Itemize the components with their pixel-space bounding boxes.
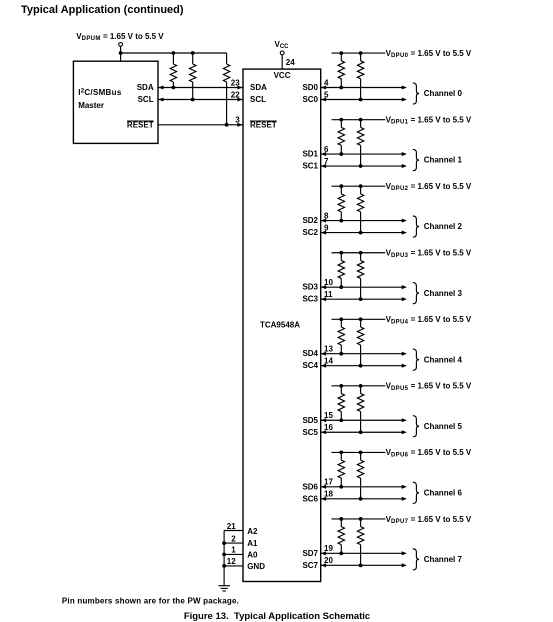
power net label VDPU5 xyxy=(386,382,472,392)
pin number 12 xyxy=(227,557,236,566)
chip pin SD5 xyxy=(302,416,318,425)
ground symbol xyxy=(218,586,230,591)
svg-text:13: 13 xyxy=(324,345,333,354)
chip pin A1 xyxy=(247,539,258,548)
chip pin SDA xyxy=(250,83,267,92)
chip pin VCC xyxy=(274,71,291,80)
node junction VDPUM rail xyxy=(119,51,123,55)
svg-text:SD6: SD6 xyxy=(302,482,318,491)
svg-text:SC7: SC7 xyxy=(302,561,318,570)
svg-text:23: 23 xyxy=(231,79,240,88)
brace channel 0 xyxy=(413,83,419,104)
svg-text:6: 6 xyxy=(324,145,329,154)
node label Channel 6 xyxy=(424,488,463,497)
node junction rail/SD0 pull-up top xyxy=(339,51,343,55)
node junction SC4 line / pull-up xyxy=(359,364,363,368)
chip pin SD0 xyxy=(302,83,318,92)
wire SC4 channel clock line (bidirectional) xyxy=(321,364,407,368)
note: pin numbers package xyxy=(62,597,239,606)
resistor pull-up on SD3 xyxy=(338,253,344,287)
node junction rail/SD6 pull-up top xyxy=(339,451,343,455)
svg-text:SD2: SD2 xyxy=(302,216,318,225)
svg-text:SC4: SC4 xyxy=(302,361,318,370)
svg-text:Master: Master xyxy=(78,101,104,110)
power terminal VDPUM circle xyxy=(119,43,123,47)
resistor pull-up on SC5 xyxy=(357,386,363,432)
pin number 1 xyxy=(231,546,236,555)
svg-text:VDPU3 = 1.65 V to 5.5 V: VDPU3 = 1.65 V to 5.5 V xyxy=(386,249,472,259)
resistor pull-up on SD1 xyxy=(338,120,344,154)
svg-text:18: 18 xyxy=(324,490,333,499)
svg-text:GND: GND xyxy=(247,562,265,571)
node junction rail/SC4 pull-up top xyxy=(359,317,363,321)
power terminal VCC circle xyxy=(280,51,284,55)
svg-text:SC6: SC6 xyxy=(302,494,318,503)
node junction SD1 line / pull-up xyxy=(339,152,343,156)
svg-text:12: 12 xyxy=(227,557,236,566)
svg-text:Channel 0: Channel 0 xyxy=(424,89,463,98)
svg-text:SDA: SDA xyxy=(250,83,267,92)
wire A0 pin stub xyxy=(224,553,243,555)
pin number 15 xyxy=(324,411,333,420)
pin number 21 xyxy=(227,522,236,531)
pin number 13 xyxy=(324,345,333,354)
svg-text:Typical Application (continued: Typical Application (continued) xyxy=(21,4,184,16)
svg-text:2: 2 xyxy=(231,534,236,543)
node junction SC1 line / pull-up xyxy=(359,164,363,168)
svg-text:SD1: SD1 xyxy=(302,150,318,159)
node junction SD5 line / pull-up xyxy=(339,418,343,422)
chip pin A2 xyxy=(247,527,258,536)
pin number 9 xyxy=(324,223,329,232)
svg-text:4: 4 xyxy=(324,78,329,87)
power net label VDPU1 xyxy=(386,115,472,125)
svg-text:SC0: SC0 xyxy=(302,95,318,104)
node junction SC2 line / pull-up xyxy=(359,231,363,235)
node junction SC5 line / pull-up xyxy=(359,430,363,434)
svg-text:1: 1 xyxy=(231,546,236,555)
power net label VDPU4 xyxy=(386,315,472,325)
wire VCC terminal to pin 24 xyxy=(281,55,283,69)
pin number 19 xyxy=(324,544,333,553)
resistor pull-up on SC7 xyxy=(357,519,363,565)
node label Channel 2 xyxy=(424,222,463,231)
chip pin SD6 xyxy=(302,482,318,491)
wire A2 pin stub xyxy=(224,530,243,532)
svg-text:22: 22 xyxy=(231,91,240,100)
svg-text:VDPU7 = 1.65 V to 5.5 V: VDPU7 = 1.65 V to 5.5 V xyxy=(386,515,472,525)
brace channel 6 xyxy=(413,482,419,503)
chip pin SD4 xyxy=(302,349,318,358)
pin number 5 xyxy=(324,90,329,99)
svg-text:11: 11 xyxy=(324,290,333,299)
node junction A1/bus xyxy=(222,541,226,545)
chip pin SD2 xyxy=(302,216,318,225)
pin number 8 xyxy=(324,211,329,220)
wire SC1 channel clock line (bidirectional) xyxy=(321,164,407,168)
svg-text:21: 21 xyxy=(227,522,236,531)
svg-text:SC1: SC1 xyxy=(302,162,318,171)
chip pin GND xyxy=(247,562,265,571)
pin number 10 xyxy=(324,278,333,287)
svg-text:9: 9 xyxy=(324,223,329,232)
wire SD4 channel data line (bidirectional) xyxy=(321,352,407,356)
wire SC6 channel clock line (bidirectional) xyxy=(321,497,407,501)
pin number 16 xyxy=(324,423,333,432)
resistor pull-up on SD6 xyxy=(338,452,344,486)
svg-text:SCL: SCL xyxy=(138,95,154,104)
wire pull-up rail VDPU1 xyxy=(332,119,386,121)
chip pin RESET (active low) xyxy=(250,120,277,129)
wire RESET master to chip xyxy=(158,123,243,127)
power net label VDPU0 xyxy=(386,49,472,59)
svg-text:16: 16 xyxy=(324,423,333,432)
pin number 2 xyxy=(231,534,236,543)
pin number 24 xyxy=(286,58,295,67)
svg-text:Pin numbers shown are for the: Pin numbers shown are for the PW package… xyxy=(62,597,239,606)
power terminal VCC label xyxy=(275,40,290,50)
node junction rail/SD5 pull-up top xyxy=(339,384,343,388)
node junction rail/SD3 pull-up top xyxy=(339,251,343,255)
wire SC3 channel clock line (bidirectional) xyxy=(321,297,407,301)
node junction SD7 line / pull-up xyxy=(339,551,343,555)
svg-text:VDPU1 = 1.65 V to 5.5 V: VDPU1 = 1.65 V to 5.5 V xyxy=(386,115,472,125)
node label Channel 4 xyxy=(424,355,463,364)
node junction SC6 line / pull-up xyxy=(359,497,363,501)
svg-text:RESET: RESET xyxy=(250,120,277,129)
wire pull-up rail VDPU0 xyxy=(332,52,386,54)
wire SD3 channel data line (bidirectional) xyxy=(321,285,407,289)
chip pin SC1 xyxy=(302,162,318,171)
node junction SD4 line / pull-up xyxy=(339,352,343,356)
brace channel 7 xyxy=(413,549,419,570)
svg-text:VDPU6 = 1.65 V to 5.5 V: VDPU6 = 1.65 V to 5.5 V xyxy=(386,448,472,458)
node junction rail/SC6 pull-up top xyxy=(359,451,363,455)
resistor pull-up on SC4 xyxy=(357,319,363,365)
svg-text:24: 24 xyxy=(286,58,295,67)
svg-text:VDPU0 = 1.65 V to 5.5 V: VDPU0 = 1.65 V to 5.5 V xyxy=(386,49,472,59)
wire pull-up rail VDPU5 xyxy=(332,385,386,387)
node junction rail/SD2 pull-up top xyxy=(339,184,343,188)
chip pin SC7 xyxy=(302,561,318,570)
node junction A0/bus xyxy=(222,553,226,557)
resistor pull-up on SC6 xyxy=(357,452,363,498)
power net label VDPU6 xyxy=(386,448,472,458)
svg-text:SC3: SC3 xyxy=(302,295,318,304)
svg-text:TCA9548A: TCA9548A xyxy=(260,320,300,329)
svg-text:15: 15 xyxy=(324,411,333,420)
wire VDPUM terminal to pull-up rail and master box VCC xyxy=(120,46,122,61)
node junction SD6 line / pull-up xyxy=(339,485,343,489)
svg-text:7: 7 xyxy=(324,157,329,166)
svg-text:SC5: SC5 xyxy=(302,428,318,437)
chip pin SC5 xyxy=(302,428,318,437)
node junction SDA line / pull-up xyxy=(172,86,176,90)
chip pin SD7 xyxy=(302,549,318,558)
svg-text:VCC: VCC xyxy=(275,40,290,50)
title: Typical Application (continued) xyxy=(21,4,184,16)
node junction SCL line / pull-up xyxy=(191,98,195,102)
power net label VDPU2 xyxy=(386,182,472,192)
svg-text:5: 5 xyxy=(324,90,329,99)
svg-text:10: 10 xyxy=(324,278,333,287)
svg-text:VDPU2 = 1.65 V to 5.5 V: VDPU2 = 1.65 V to 5.5 V xyxy=(386,182,472,192)
node junction SC0 line / pull-up xyxy=(359,98,363,102)
brace channel 1 xyxy=(413,149,419,170)
pin number 17 xyxy=(324,478,333,487)
wire SC2 channel clock line (bidirectional) xyxy=(321,231,407,235)
node junction rail/SD1 pull-up top xyxy=(339,118,343,122)
node label Channel 3 xyxy=(424,289,463,298)
wire pull-up rail VDPU3 xyxy=(332,252,386,254)
chip pin SC4 xyxy=(302,361,318,370)
resistor pull-up on SC1 xyxy=(357,120,363,166)
svg-text:19: 19 xyxy=(324,544,333,553)
chip pin SD1 xyxy=(302,150,318,159)
node junction SD3 line / pull-up xyxy=(339,285,343,289)
node label Channel 1 xyxy=(424,156,463,165)
node label Channel 5 xyxy=(424,422,463,431)
svg-text:20: 20 xyxy=(324,556,333,565)
power net label VDPU7 xyxy=(386,515,472,525)
svg-text:Channel 3: Channel 3 xyxy=(424,289,463,298)
node junction rail/SC5 pull-up top xyxy=(359,384,363,388)
svg-text:14: 14 xyxy=(324,357,333,366)
resistor pull-up on SD7 xyxy=(338,519,344,553)
op chip TCA9548A block xyxy=(243,69,321,581)
node junction rail/SC1 pull-up top xyxy=(359,118,363,122)
power net label VDPU3 xyxy=(386,249,472,259)
svg-text:Channel 7: Channel 7 xyxy=(424,555,463,564)
svg-text:I2C/SMBus: I2C/SMBus xyxy=(78,88,122,97)
svg-text:A1: A1 xyxy=(247,539,258,548)
resistor pull-up on SD5 xyxy=(338,386,344,420)
svg-text:SCL: SCL xyxy=(250,95,266,104)
wire SD5 channel data line (bidirectional) xyxy=(321,418,407,422)
chip pin SC3 xyxy=(302,295,318,304)
svg-text:SD7: SD7 xyxy=(302,549,318,558)
pin number 11 xyxy=(324,290,333,299)
master pin SDA xyxy=(137,83,154,92)
wire SD0 channel data line (bidirectional) xyxy=(321,85,407,89)
wire SC7 channel clock line (bidirectional) xyxy=(321,563,407,567)
node label Channel 0 xyxy=(424,89,463,98)
pin number 6 xyxy=(324,145,329,154)
brace channel 5 xyxy=(413,416,419,437)
node junction rail/SC7 pull-up top xyxy=(359,517,363,521)
svg-text:SD5: SD5 xyxy=(302,416,318,425)
node junction RESET line / pull-up xyxy=(225,123,229,127)
wire SC0 channel clock line (bidirectional) xyxy=(321,97,407,101)
pin number 20 xyxy=(324,556,333,565)
node junction resistor top on rail (SCL pull-up) xyxy=(191,51,195,55)
pin number 22 xyxy=(231,91,240,100)
svg-text:Channel 1: Channel 1 xyxy=(424,156,463,165)
chip pin SC2 xyxy=(302,228,318,237)
pin number 14 xyxy=(324,357,333,366)
svg-text:A0: A0 xyxy=(247,550,258,559)
wire A1 pin stub xyxy=(224,542,243,544)
svg-text:Channel 5: Channel 5 xyxy=(424,422,463,431)
brace channel 3 xyxy=(413,283,419,304)
I2C/SMBus Master block xyxy=(73,61,158,143)
svg-text:Channel 4: Channel 4 xyxy=(424,355,463,364)
wire SD1 channel data line (bidirectional) xyxy=(321,152,407,156)
node junction SC7 line / pull-up xyxy=(359,563,363,567)
svg-text:SD4: SD4 xyxy=(302,349,318,358)
node junction SD0 line / pull-up xyxy=(339,86,343,90)
svg-text:SDA: SDA xyxy=(137,83,154,92)
wire SD7 channel data line (bidirectional) xyxy=(321,551,407,555)
svg-text:Channel 2: Channel 2 xyxy=(424,222,463,231)
svg-text:3: 3 xyxy=(235,116,240,125)
master pin SCL xyxy=(138,95,154,104)
wire GND pin stub xyxy=(224,565,243,567)
svg-text:Channel 6: Channel 6 xyxy=(424,488,463,497)
node junction SC3 line / pull-up xyxy=(359,297,363,301)
node junction rail/SC3 pull-up top xyxy=(359,251,363,255)
brace channel 4 xyxy=(413,349,419,370)
wire SDA bus (bidirectional) master to chip xyxy=(158,85,243,89)
resistor pull-up on SCL xyxy=(190,53,196,100)
resistor pull-up on SC3 xyxy=(357,253,363,299)
resistor pull-up on RESET xyxy=(223,53,229,125)
svg-text:VDPU5 = 1.65 V to 5.5 V: VDPU5 = 1.65 V to 5.5 V xyxy=(386,382,472,392)
wire pull-up rail for SDA/SCL/RESET xyxy=(121,52,227,54)
wire SCL bus (bidirectional) master to chip xyxy=(158,97,243,101)
power terminal VDPUM supply label xyxy=(76,32,164,42)
wire pull-up rail VDPU4 xyxy=(332,318,386,320)
chip pin SCL xyxy=(250,95,266,104)
chip pin SD3 xyxy=(302,283,318,292)
resistor pull-up on SC2 xyxy=(357,186,363,232)
node junction rail/SD4 pull-up top xyxy=(339,317,343,321)
svg-text:8: 8 xyxy=(324,211,329,220)
wire pull-up rail VDPU7 xyxy=(332,518,386,520)
master pin RESET (active low) xyxy=(127,120,154,129)
resistor pull-up on SD0 xyxy=(338,53,344,87)
chip pin A0 xyxy=(247,550,258,559)
brace channel 2 xyxy=(413,216,419,237)
wire address/ground bus vertical xyxy=(223,531,225,586)
node junction rail/SD7 pull-up top xyxy=(339,517,343,521)
node junction SD2 line / pull-up xyxy=(339,219,343,223)
pin number 18 xyxy=(324,490,333,499)
svg-text:SC2: SC2 xyxy=(302,228,318,237)
chip pin SC6 xyxy=(302,494,318,503)
resistor pull-up on SDA xyxy=(170,53,176,88)
chip pin SC0 xyxy=(302,95,318,104)
svg-text:VDPUM = 1.65 V to 5.5 V: VDPUM = 1.65 V to 5.5 V xyxy=(76,32,164,42)
svg-text:A2: A2 xyxy=(247,527,258,536)
svg-text:SD0: SD0 xyxy=(302,83,318,92)
svg-text:VDPU4 = 1.65 V to 5.5 V: VDPU4 = 1.65 V to 5.5 V xyxy=(386,315,472,325)
svg-text:Figure 13. Typical Applicatio: Figure 13. Typical Application Schematic xyxy=(184,611,370,622)
pin number 7 xyxy=(324,157,329,166)
wire SD2 channel data line (bidirectional) xyxy=(321,219,407,223)
pin number 3 xyxy=(235,116,240,125)
resistor pull-up on SC0 xyxy=(357,53,363,99)
wire SC5 channel clock line (bidirectional) xyxy=(321,430,407,434)
resistor pull-up on SD4 xyxy=(338,319,344,353)
svg-text:VCC: VCC xyxy=(274,71,291,80)
node junction GND/bus xyxy=(222,564,226,568)
caption Figure 13 xyxy=(184,611,370,622)
node label Channel 7 xyxy=(424,555,463,564)
svg-text:SD3: SD3 xyxy=(302,283,318,292)
pin number 4 xyxy=(324,78,329,87)
svg-text:RESET: RESET xyxy=(127,120,154,129)
node junction resistor top on rail (SDA pull-up) xyxy=(172,51,176,55)
node junction rail/SC0 pull-up top xyxy=(359,51,363,55)
resistor pull-up on SD2 xyxy=(338,186,344,220)
wire pull-up rail VDPU6 xyxy=(332,451,386,453)
node junction rail/SC2 pull-up top xyxy=(359,184,363,188)
wire SD6 channel data line (bidirectional) xyxy=(321,485,407,489)
svg-text:17: 17 xyxy=(324,478,333,487)
wire pull-up rail VDPU2 xyxy=(332,185,386,187)
pin number 23 xyxy=(231,79,240,88)
